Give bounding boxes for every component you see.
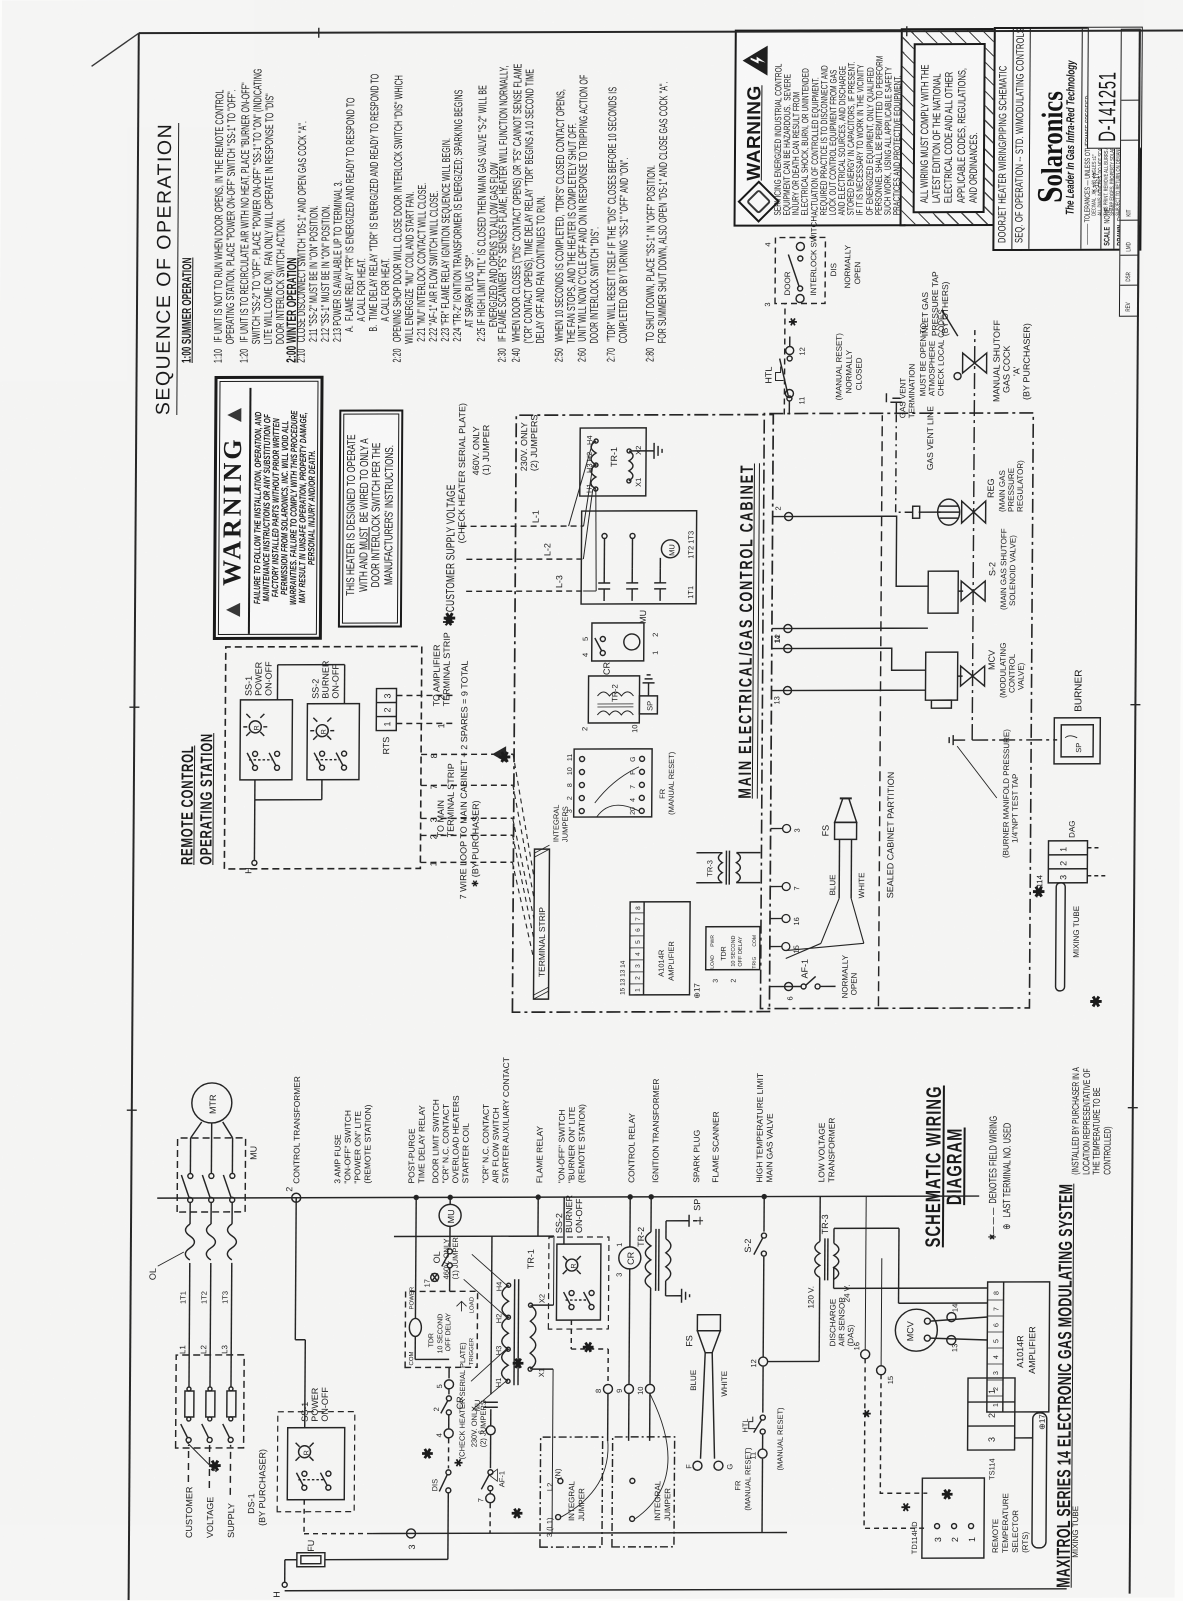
svg-text:3: 3 xyxy=(763,302,772,306)
svg-text:INTEGRAL: INTEGRAL xyxy=(552,805,561,843)
svg-text:FS: FS xyxy=(821,825,831,837)
svg-text:10 SECOND: 10 SECOND xyxy=(731,935,737,966)
switch SS-2 (ladder) with station dashes xyxy=(548,1194,609,1349)
heading 2:00 xyxy=(286,257,299,362)
svg-text:ON-OFF: ON-OFF xyxy=(330,664,340,699)
svg-text:SP: SP xyxy=(1074,743,1083,753)
frame bottom border xyxy=(1130,31,1140,1594)
svg-text:3: 3 xyxy=(933,1537,943,1542)
title: main electrical/gas control cabinet xyxy=(735,464,760,799)
svg-text:5: 5 xyxy=(993,1339,1000,1343)
svg-text:BURNER: BURNER xyxy=(564,1195,574,1234)
svg-text:⊕17: ⊕17 xyxy=(693,983,702,999)
svg-text:4: 4 xyxy=(635,952,642,956)
gas vent termination symbol xyxy=(886,393,902,413)
svg-text:JUMPER: JUMPER xyxy=(663,1488,672,1521)
svg-text:WHITE: WHITE xyxy=(857,873,866,899)
mixing tube TS114 (housing) xyxy=(1035,820,1107,991)
svg-text:3: 3 xyxy=(1058,875,1068,880)
frame right border xyxy=(139,31,1183,34)
svg-text:3: 3 xyxy=(407,1544,417,1549)
svg-text:(MANUAL RESET): (MANUAL RESET) xyxy=(834,333,843,401)
svg-text:3: 3 xyxy=(635,964,642,968)
svg-text:12: 12 xyxy=(749,1359,758,1367)
svg-text:A1014R: A1014R xyxy=(657,949,666,977)
svg-text:CONTROL: CONTROL xyxy=(1007,653,1016,693)
svg-text:2: 2 xyxy=(580,727,589,731)
svg-text:CUSTOMER: CUSTOMER xyxy=(184,1486,194,1538)
svg-text:TR-3: TR-3 xyxy=(820,1214,830,1234)
svg-text:12: 12 xyxy=(798,347,807,355)
air flow switch AF-1 (housing) xyxy=(769,954,858,1000)
solenoid valve S-2 xyxy=(928,528,1018,613)
svg-text:CHECK LOCAL CODES: CHECK LOCAL CODES xyxy=(936,309,946,396)
warning box W1 xyxy=(213,376,324,640)
svg-text:DOOR: DOOR xyxy=(783,271,792,295)
svg-text:AMPLIFIER: AMPLIFIER xyxy=(1027,1326,1037,1374)
svg-text:(MODULATING: (MODULATING xyxy=(998,643,1007,698)
svg-text:SEALED CABINET PARTITION: SEALED CABINET PARTITION xyxy=(885,772,896,899)
svg-text:H3: H3 xyxy=(494,1346,503,1356)
door interlock switch DIS (gas side) xyxy=(762,216,862,415)
transformer TR-1 (ladder) xyxy=(440,1236,554,1533)
svg-text:L2: L2 xyxy=(199,1345,208,1354)
svg-text:15 13 13 14: 15 13 13 14 xyxy=(620,960,627,995)
title: schematic wiring diagram xyxy=(924,1074,966,1260)
svg-text:7: 7 xyxy=(993,1307,1000,1311)
svg-text:2: 2 xyxy=(950,1537,960,1542)
SS-2 contacts xyxy=(314,751,347,770)
title: maxitrol series 14 xyxy=(1054,1184,1079,1588)
svg-text:8: 8 xyxy=(567,783,574,787)
svg-text:7: 7 xyxy=(476,1498,485,1502)
svg-text:TRIGGER: TRIGGER xyxy=(469,1337,475,1365)
svg-text:5: 5 xyxy=(635,940,642,944)
svg-text:LOW VOLTAGE: LOW VOLTAGE xyxy=(816,1122,826,1182)
gas vent line xyxy=(896,413,914,512)
svg-text:1: 1 xyxy=(635,988,642,992)
item 2:60 xyxy=(577,75,603,363)
relay CR coil rung xyxy=(614,1197,642,1441)
svg-text:7: 7 xyxy=(792,886,801,890)
svg-text:1: 1 xyxy=(1058,847,1068,852)
svg-text:REG: REG xyxy=(986,478,996,498)
item 2:40 xyxy=(511,63,549,362)
svg-text:3 (L1): 3 (L1) xyxy=(545,1517,554,1537)
rung: MU coil / OL / TDR feed xyxy=(421,1197,467,1533)
svg-text:DS-1: DS-1 xyxy=(246,1493,256,1514)
terminal H xyxy=(252,860,257,865)
note box: ALL WIRING (hatched border) xyxy=(900,28,999,226)
svg-text:OFF DELAY: OFF DELAY xyxy=(738,936,744,966)
wires DS-1 to OL xyxy=(189,1263,232,1387)
svg-text:L1: L1 xyxy=(178,1345,187,1354)
svg-text:FLAME RELAY: FLAME RELAY xyxy=(534,1126,544,1184)
svg-text:BURNER: BURNER xyxy=(1073,670,1084,712)
warning box W2 xyxy=(734,29,907,226)
svg-text:6: 6 xyxy=(785,996,794,1000)
heading 1:00 xyxy=(181,258,194,364)
integral jumper boxes xyxy=(540,1437,608,1547)
svg-text:NORMALLY: NORMALLY xyxy=(843,244,852,288)
svg-text:ON-OFF: ON-OFF xyxy=(320,1387,330,1422)
svg-text:JUMPER: JUMPER xyxy=(577,1488,586,1521)
svg-text:TERMINAL STRIP: TERMINAL STRIP xyxy=(441,632,451,706)
disconnect DS-1 box xyxy=(175,1355,268,1526)
item 2:20 xyxy=(392,75,502,363)
svg-text:17: 17 xyxy=(423,1279,432,1287)
svg-text:13: 13 xyxy=(950,1344,959,1352)
svg-text:R: R xyxy=(321,729,328,734)
svg-text:3: 3 xyxy=(993,1371,1000,1375)
rail 2 (hot) xyxy=(157,1185,979,1203)
svg-text:PWR: PWR xyxy=(710,935,716,947)
svg-text:460V. ONLY: 460V. ONLY xyxy=(471,426,481,475)
svg-text:3: 3 xyxy=(713,979,720,983)
discharge air sensor terminals 15 16 xyxy=(827,1196,929,1528)
svg-text:SS-2: SS-2 xyxy=(310,679,320,699)
asterisks (field wiring marks) xyxy=(439,610,1108,1010)
svg-text:2: 2 xyxy=(635,976,642,980)
svg-text:(MANUAL RESET): (MANUAL RESET) xyxy=(775,1407,784,1471)
svg-text:✱: ✱ xyxy=(510,1357,526,1369)
svg-text:✱: ✱ xyxy=(788,317,800,326)
warning triangle xyxy=(741,45,768,77)
svg-text:3: 3 xyxy=(615,1273,624,1277)
svg-text:8: 8 xyxy=(994,1291,1001,1295)
svg-text:8: 8 xyxy=(635,906,642,910)
svg-text:VALVE): VALVE) xyxy=(1017,662,1026,690)
svg-text:TERMINATION: TERMINATION xyxy=(907,363,916,418)
svg-text:5: 5 xyxy=(581,637,590,641)
gas pipe main run xyxy=(972,330,1060,740)
svg-text:TERMINAL STRIP: TERMINAL STRIP xyxy=(537,907,547,977)
logo tagline xyxy=(1065,60,1078,215)
svg-text:(RTS): (RTS) xyxy=(1021,1531,1030,1553)
svg-text:TRIG: TRIG xyxy=(752,957,758,969)
svg-text:(REMOTE STATION): (REMOTE STATION) xyxy=(576,1104,587,1183)
svg-text:TR-3: TR-3 xyxy=(705,860,714,877)
svg-text:230V. ONLY: 230V. ONLY xyxy=(519,422,529,471)
svg-text:'A': 'A' xyxy=(1012,366,1022,376)
svg-text:1: 1 xyxy=(967,1537,977,1542)
svg-text:6: 6 xyxy=(477,1430,486,1434)
svg-text:7: 7 xyxy=(635,917,642,921)
svg-text:OFF DELAY: OFF DELAY xyxy=(445,1313,452,1352)
svg-text:✱: ✱ xyxy=(1088,995,1105,1008)
item 2:70 xyxy=(606,87,632,362)
svg-text:FS: FS xyxy=(684,1335,694,1347)
svg-text:SP: SP xyxy=(645,701,654,711)
switch SS-1 box xyxy=(240,700,293,780)
svg-text:S-2: S-2 xyxy=(743,1239,753,1253)
svg-text:7: 7 xyxy=(630,785,637,789)
svg-text:✱: ✱ xyxy=(580,1341,596,1353)
svg-text:REGULATOR): REGULATOR) xyxy=(1016,460,1025,512)
misc asterisks ladder xyxy=(419,1340,956,1519)
station drop wires to cabinet xyxy=(395,695,513,862)
svg-text:TO AMPLIFIER: TO AMPLIFIER xyxy=(431,644,441,706)
valve actuator MCV (ladder) xyxy=(895,1304,987,1353)
svg-text:SS-1: SS-1 xyxy=(243,676,253,696)
svg-text:SOLENOID VALVE): SOLENOID VALVE) xyxy=(1008,535,1017,606)
svg-text:3: 3 xyxy=(793,828,802,832)
supply labels xyxy=(184,1486,236,1538)
svg-text:MU: MU xyxy=(473,1400,482,1412)
svg-text:S-2: S-2 xyxy=(987,562,997,576)
svg-text:8: 8 xyxy=(594,1389,603,1393)
svg-text:A1014R: A1014R xyxy=(1015,1335,1025,1368)
svg-text:✱: ✱ xyxy=(862,1409,874,1418)
wires SS-1 to SS-2 xyxy=(254,780,256,800)
svg-text:1T2 1T3: 1T2 1T3 xyxy=(686,531,695,559)
svg-text:POWER: POWER xyxy=(253,661,263,696)
svg-text:4: 4 xyxy=(581,653,590,657)
svg-text:MIXING TUBE: MIXING TUBE xyxy=(1072,906,1081,958)
svg-text:POST-PURGE: POST-PURGE xyxy=(406,1128,416,1183)
svg-text:4: 4 xyxy=(763,242,772,246)
svg-text:2: 2 xyxy=(284,1187,294,1192)
cabinet bottom terminals 15 16 7 3 xyxy=(770,824,802,953)
switch SS-1 (ladder) with station dashes xyxy=(277,1198,374,1534)
svg-text:1: 1 xyxy=(382,721,392,726)
dashed loop wires into terminal strip xyxy=(512,754,535,959)
svg-text:G: G xyxy=(630,756,637,761)
svg-text:R: R xyxy=(254,725,261,730)
svg-text:OVERLOAD HEATERS: OVERLOAD HEATERS xyxy=(450,1095,461,1183)
svg-text:H1: H1 xyxy=(494,1378,503,1388)
svg-text:TRANSFORMER: TRANSFORMER xyxy=(826,1118,836,1183)
svg-text:1/4"NPT TEST TAP: 1/4"NPT TEST TAP xyxy=(1011,774,1020,843)
overload heaters OL xyxy=(148,1224,237,1280)
note box: THIS HEATER xyxy=(338,409,403,627)
housing dash-dot enclosure xyxy=(760,413,1033,1009)
svg-text:✱ (BY PURCHASER): ✱ (BY PURCHASER) xyxy=(470,800,481,887)
title: remote control operating station xyxy=(178,733,217,865)
timer TDR box (cabinet) xyxy=(706,927,760,983)
rail H (neutral) xyxy=(272,1580,1067,1597)
svg-text:L-3: L-3 xyxy=(554,575,564,588)
svg-text:MANUAL SHUTOFF: MANUAL SHUTOFF xyxy=(991,319,1002,402)
svg-text:DOOR LIMIT SWITCH: DOOR LIMIT SWITCH xyxy=(430,1099,441,1183)
svg-text:1T1: 1T1 xyxy=(179,1291,188,1304)
svg-text:COM: COM xyxy=(752,935,758,947)
label integral jumpers xyxy=(552,805,570,843)
timer TDR enclosure (ladder) xyxy=(405,1197,478,1367)
svg-text:(1) JUMPER: (1) JUMPER xyxy=(481,424,491,475)
svg-text:4: 4 xyxy=(993,1355,1000,1359)
svg-text:CONTROL TRANSFORMER: CONTROL TRANSFORMER xyxy=(291,1076,302,1184)
svg-text:230V. ONLY: 230V. ONLY xyxy=(470,1406,479,1447)
modulating valve MCV xyxy=(925,643,1025,709)
regulator REG xyxy=(913,460,1025,525)
item 1:10 xyxy=(213,89,239,363)
warning triangle small xyxy=(492,746,506,762)
svg-text:"ON-OFF" SWITCH: "ON-OFF" SWITCH xyxy=(342,1110,352,1184)
svg-text:2: 2 xyxy=(731,979,738,983)
rung: MU aux / AF-1 xyxy=(472,1236,508,1533)
terminal strip bar xyxy=(534,845,550,999)
svg-text:4: 4 xyxy=(630,798,637,802)
amplifier A1014R (cabinet) xyxy=(620,902,703,999)
svg-text:4: 4 xyxy=(435,1433,444,1437)
svg-text:TR-1: TR-1 xyxy=(526,1249,536,1269)
small print xyxy=(1092,134,1123,215)
inlet gas pressure tap xyxy=(920,271,958,336)
svg-text:L-1: L-1 xyxy=(531,510,541,523)
svg-text:AIR FLOW SWITCH: AIR FLOW SWITCH xyxy=(490,1107,500,1183)
tolerances line xyxy=(1082,68,1092,245)
svg-text:3: 3 xyxy=(382,693,392,698)
svg-text:BURNER: BURNER xyxy=(320,660,330,699)
date cell xyxy=(1091,173,1101,193)
svg-text:(1) JUMPER: (1) JUMPER xyxy=(451,1237,460,1280)
switch SS-2 box xyxy=(307,704,359,780)
svg-text:L-2: L-2 xyxy=(542,543,552,556)
svg-text:TR-2: TR-2 xyxy=(636,1227,646,1247)
svg-text:2: 2 xyxy=(567,796,574,800)
note: installed by purchaser xyxy=(1071,1067,1114,1175)
fold mark top-right corner xyxy=(92,33,139,66)
svg-text:✱: ✱ xyxy=(420,1447,436,1459)
label to amplifier terminal strip xyxy=(431,632,451,706)
svg-text:POWER: POWER xyxy=(409,1286,415,1309)
svg-text:✱: ✱ xyxy=(497,750,514,763)
drawing number cell xyxy=(1087,28,1142,149)
svg-text:(REMOTE STATION): (REMOTE STATION) xyxy=(362,1104,373,1183)
frame top border xyxy=(129,33,139,1600)
amplifier A1014R (ladder) xyxy=(987,1282,1050,1430)
transformer TR-2 (cabinet) xyxy=(580,675,657,733)
svg-text:MU: MU xyxy=(446,1209,456,1223)
svg-text:FR: FR xyxy=(658,788,667,799)
svg-text:VOLTAGE: VOLTAGE xyxy=(205,1497,215,1538)
sealed cabinet partition dashed line xyxy=(878,415,882,1006)
rung: HTL / S-2 valve coil xyxy=(740,1197,786,1533)
svg-text:H2: H2 xyxy=(494,1314,503,1324)
remote temperature selector TD114HD xyxy=(899,1478,1031,1558)
svg-text:OPEN: OPEN xyxy=(853,261,862,284)
svg-text:"ON-OFF" SWITCH: "ON-OFF" SWITCH xyxy=(556,1110,566,1184)
svg-text:FR: FR xyxy=(733,1480,742,1491)
svg-text:FLAME SCANNER: FLAME SCANNER xyxy=(710,1111,720,1182)
svg-text:7: 7 xyxy=(429,784,439,789)
svg-text:WHITE: WHITE xyxy=(720,1371,729,1397)
svg-text:TEMPERATURE: TEMPERATURE xyxy=(1001,1493,1010,1553)
svg-text:TR-2: TR-2 xyxy=(610,684,619,702)
cabinet dash-dot enclosure xyxy=(512,415,773,1013)
svg-text:MU: MU xyxy=(248,1146,258,1160)
svg-text:3 AMP FUSE: 3 AMP FUSE xyxy=(332,1134,342,1184)
svg-text:GAS VENT: GAS VENT xyxy=(898,378,907,419)
svg-text:"CR" N.C. CONTACT: "CR" N.C. CONTACT xyxy=(440,1104,451,1183)
svg-text:(DAS): (DAS) xyxy=(846,1324,855,1346)
station dashed enclosure xyxy=(224,646,421,868)
svg-text:(2) JUMPERS: (2) JUMPERS xyxy=(529,415,539,472)
relay FR box xyxy=(567,749,676,817)
svg-text:✱: ✱ xyxy=(442,611,459,624)
svg-text:8: 8 xyxy=(429,753,439,758)
svg-text:LOAD: LOAD xyxy=(710,955,716,969)
svg-text:2: 2 xyxy=(987,1413,997,1418)
svg-text:14: 14 xyxy=(773,635,782,643)
svg-text:"CR" N.C. CONTACT: "CR" N.C. CONTACT xyxy=(480,1104,491,1183)
label check heater serial plate xyxy=(456,403,539,544)
svg-text:SUPPLY: SUPPLY xyxy=(226,1503,236,1538)
svg-text:✱: ✱ xyxy=(899,1502,913,1512)
svg-text:AIR SENSOR: AIR SENSOR xyxy=(837,1297,846,1347)
svg-text:NORMALLY: NORMALLY xyxy=(841,954,850,998)
svg-text:(BY PURCHASER): (BY PURCHASER) xyxy=(257,1449,267,1526)
svg-text:1: 1 xyxy=(993,1403,1000,1407)
svg-text:REMOTE: REMOTE xyxy=(991,1519,1000,1553)
svg-text:(BY PURCHASER): (BY PURCHASER) xyxy=(1021,323,1031,400)
svg-text:SP: SP xyxy=(692,1199,702,1211)
svg-text:(N): (N) xyxy=(553,1468,562,1479)
svg-text:OL: OL xyxy=(432,1251,442,1263)
svg-text:3: 3 xyxy=(987,1437,997,1442)
sequence of operation title xyxy=(152,123,179,415)
item 2:30 xyxy=(497,66,511,363)
wires cabinet to MCV xyxy=(771,635,925,705)
svg-text:DIS: DIS xyxy=(430,1479,439,1492)
svg-text:1: 1 xyxy=(987,1389,997,1394)
svg-text:G: G xyxy=(725,1464,734,1470)
svg-text:TO MAIN: TO MAIN xyxy=(436,800,446,837)
svg-text:DIS: DIS xyxy=(829,263,838,276)
svg-text:X1: X1 xyxy=(634,478,643,487)
svg-text:2: 2 xyxy=(1058,861,1068,866)
svg-text:120 V.: 120 V. xyxy=(806,1286,815,1308)
svg-text:✱: ✱ xyxy=(509,1507,525,1519)
svg-text:1T1: 1T1 xyxy=(686,586,695,599)
item 1:20 xyxy=(239,68,289,363)
svg-text:TDR: TDR xyxy=(721,946,728,960)
svg-text:IGNITION TRANSFORMER: IGNITION TRANSFORMER xyxy=(650,1079,661,1183)
svg-text:✱: ✱ xyxy=(453,1458,465,1467)
supply dashed leads xyxy=(188,1445,230,1495)
svg-text:SS-2: SS-2 xyxy=(554,1213,564,1233)
svg-text:10 SECOND: 10 SECOND xyxy=(437,1314,444,1354)
high temperature limit HTL (gas side) xyxy=(763,333,864,415)
svg-text:DAG: DAG xyxy=(1068,820,1077,837)
svg-text:INTEGRAL: INTEGRAL xyxy=(567,1480,576,1521)
svg-text:"BURNER ON" LITE: "BURNER ON" LITE xyxy=(566,1106,576,1183)
svg-text:MCV: MCV xyxy=(905,1321,915,1341)
svg-text:MU: MU xyxy=(667,544,676,556)
ground at TR-1 X2 xyxy=(631,443,662,459)
svg-text:TDR: TDR xyxy=(428,1333,435,1347)
item 2:50 xyxy=(554,89,580,362)
svg-text:10: 10 xyxy=(567,767,574,775)
svg-text:SPARK PLUG: SPARK PLUG xyxy=(691,1130,701,1183)
vertical link line xyxy=(394,1235,554,1237)
svg-text:(CHECK HEATER SERIAL PLATE): (CHECK HEATER SERIAL PLATE) xyxy=(456,403,467,543)
svg-text:1T2: 1T2 xyxy=(200,1291,209,1304)
svg-text:R: R xyxy=(304,1450,311,1455)
wires cabinet to S-2 xyxy=(772,506,929,643)
svg-text:HTL: HTL xyxy=(763,367,773,384)
rung: terminal 8 xyxy=(594,1349,613,1441)
legend: denotes field wiring xyxy=(986,1116,1015,1240)
transformer TR-3 (cabinet) xyxy=(696,851,760,885)
svg-text:ATMOSPHERE: ATMOSPHERE xyxy=(927,341,936,396)
svg-text:15: 15 xyxy=(886,1376,895,1384)
svg-text:1: 1 xyxy=(651,651,660,655)
svg-text:L3: L3 xyxy=(220,1344,229,1353)
svg-text:✱: ✱ xyxy=(939,1488,955,1500)
svg-text:COM: COM xyxy=(409,1351,415,1365)
